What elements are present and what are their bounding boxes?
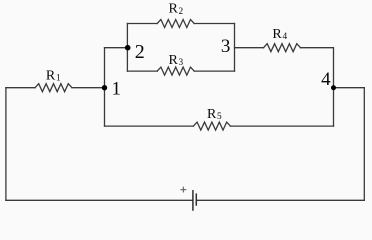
svg-text:4: 4 [321,69,331,90]
wire: R2 right lead [194,23,234,25]
svg-text:2: 2 [135,41,145,63]
wire: riser to node 2 [105,47,128,49]
wire: R4 right lead to corner and down to node 4 [301,48,334,88]
wire: R5 left lead [105,125,194,127]
wire: node 4 to right edge [334,87,365,89]
battery polarity + sign [181,187,186,192]
wire: parallel box left edge [126,24,128,72]
wire: bottom left (battery negative side run) [6,199,193,201]
svg-text:R3: R3 [169,53,184,68]
wire: R5 right lead [230,125,333,127]
resistor R3 zigzag [157,67,194,75]
junction node 2 [125,45,131,51]
battery plate long (positive) [192,191,194,210]
resistor R2 zigzag [157,20,194,28]
wire: left edge vertical [5,88,7,201]
svg-text:R1: R1 [46,69,61,84]
wire: R3 right lead [194,70,234,72]
wire: R2 left lead [127,23,157,25]
wire: parallel box right edge [234,24,236,72]
svg-text:R5: R5 [207,107,222,122]
wire: R1 left lead from left edge [6,87,35,89]
junction node 4 [331,85,336,90]
wire: node 4 down to R5 level [333,88,335,126]
wire: R3 left lead [127,70,157,72]
wire: node 1 riser up to node 2 level [104,48,106,88]
battery plate short (negative) [195,194,197,205]
svg-text:R4: R4 [272,27,287,42]
svg-text:R2: R2 [169,2,184,17]
wire: bottom right (battery to right edge) [196,199,364,201]
svg-text:3: 3 [221,36,231,57]
resistor R4 zigzag [264,44,301,52]
junction node 1 [102,85,107,90]
wire: right edge vertical [363,88,365,201]
wire: node 3 to R4 [235,47,264,49]
resistor R5 zigzag [193,122,230,130]
wire: node 1 down to R5 level [104,88,106,126]
wire: R1 to node 1 [72,87,105,89]
resistor R1 zigzag [35,84,72,92]
svg-text:1: 1 [112,78,122,99]
